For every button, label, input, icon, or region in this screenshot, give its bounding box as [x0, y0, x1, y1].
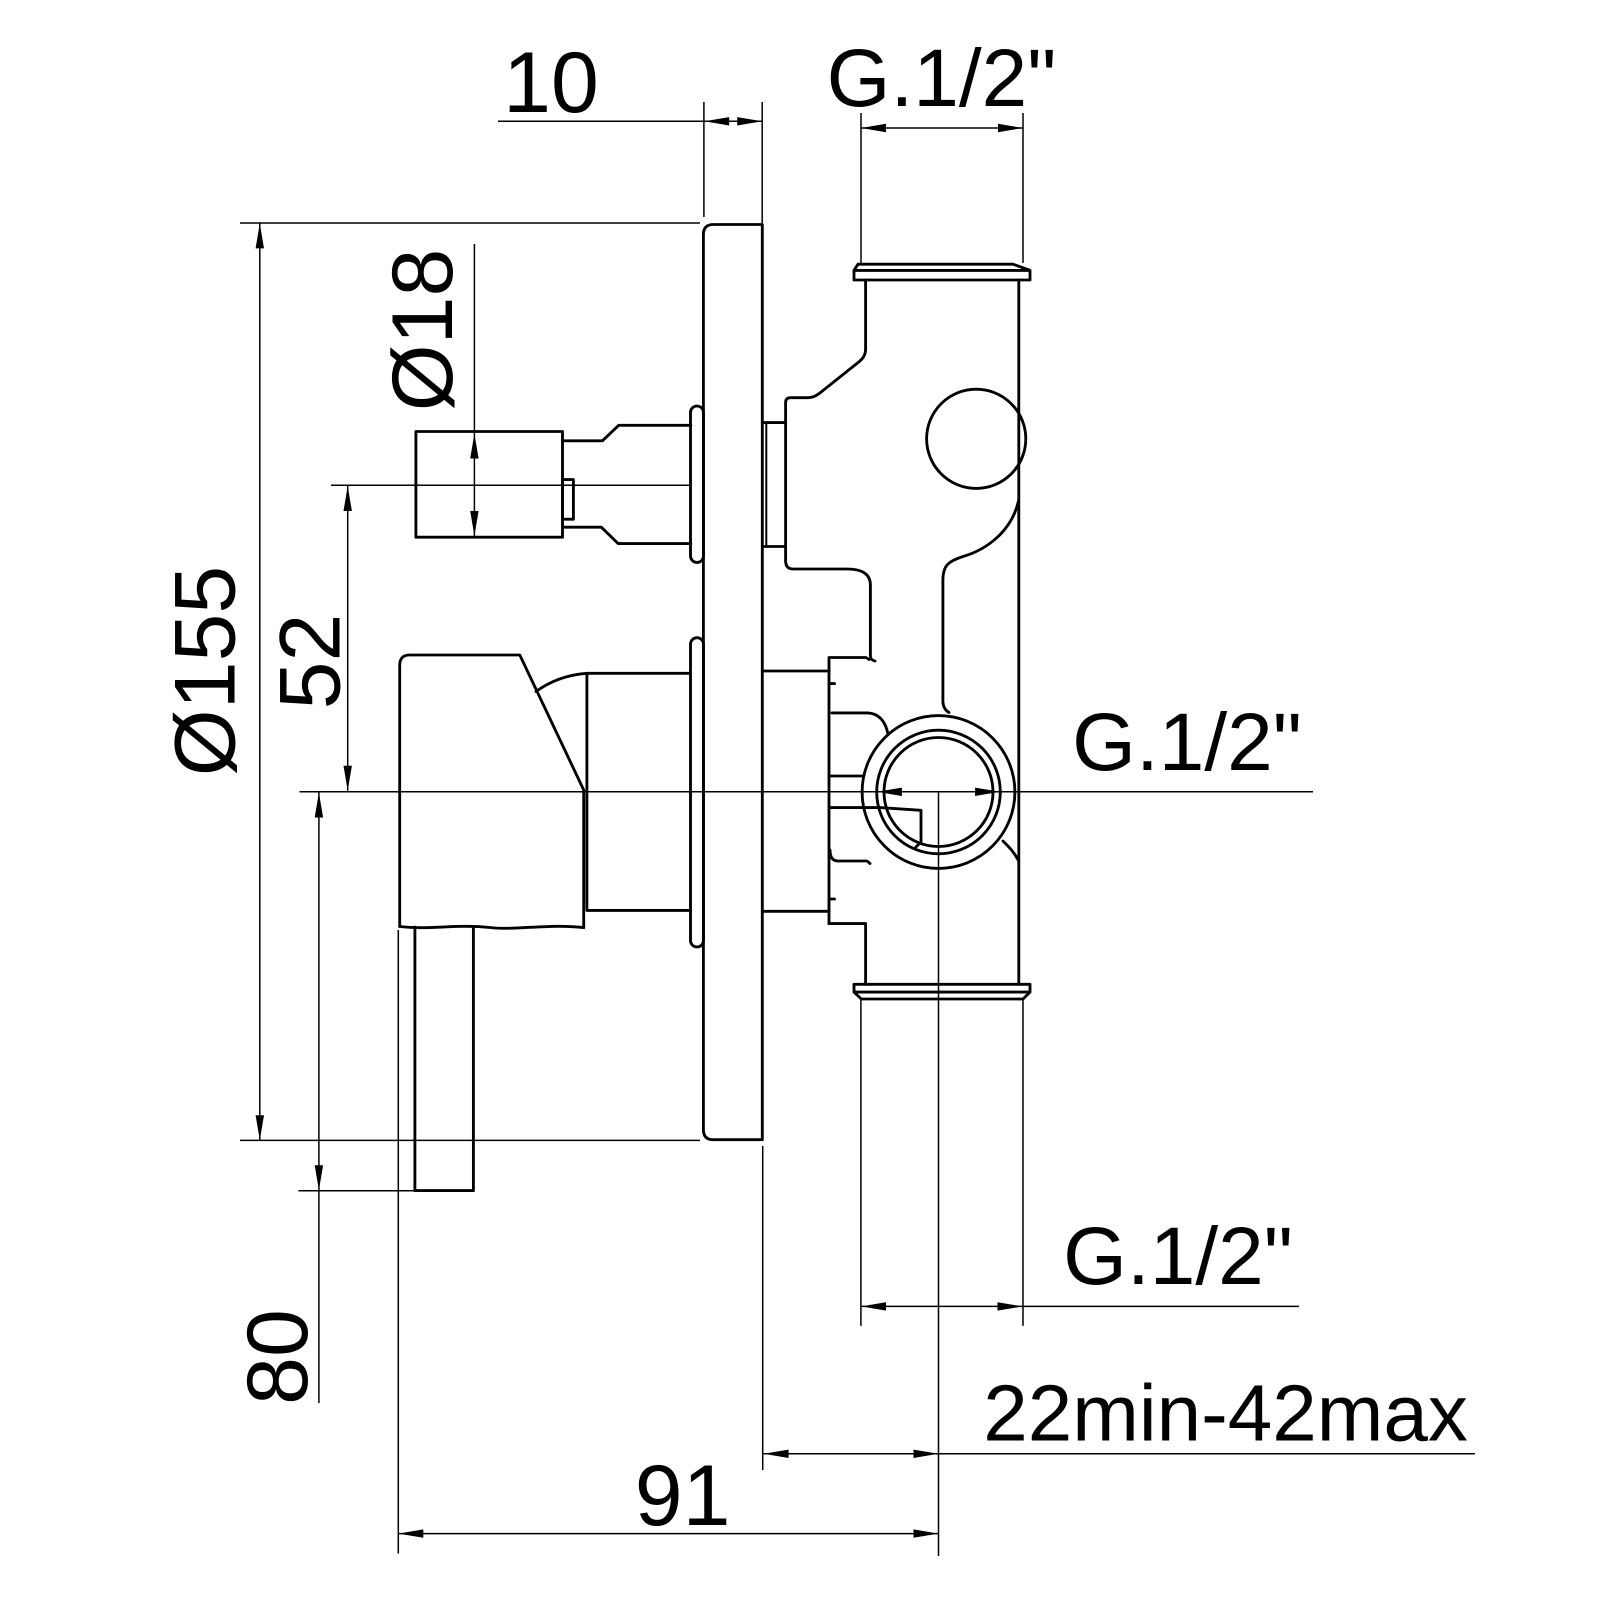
arrow port left [877, 788, 902, 796]
port neck upper edge [829, 775, 863, 778]
arrow G12top right [998, 124, 1023, 132]
arrow 91 left [398, 1529, 423, 1537]
handle lever [415, 927, 474, 1191]
dimension 22min-42max line [764, 1453, 1475, 1455]
port boss top edge [832, 713, 888, 734]
arrow G12bot right [998, 1302, 1023, 1310]
extension D155 top [240, 222, 700, 224]
arrow D18 up [470, 434, 478, 459]
handle bottom wavy edge [400, 926, 584, 928]
dimension 10 line [498, 120, 762, 122]
cartridge boss top edge [762, 670, 829, 673]
port neck lower edge / cartridge notch [829, 808, 921, 848]
top outlet circle [927, 389, 1026, 488]
svg-text:G.1/2": G.1/2" [1063, 1211, 1293, 1302]
extension D155 bottom [240, 1139, 700, 1141]
dimension D18 leader [473, 244, 475, 536]
arrow D155 up [256, 223, 264, 248]
arrow 91 right [914, 1529, 939, 1537]
svg-text:22min-42max: 22min-42max [983, 1369, 1468, 1458]
knob boss inner line [765, 425, 767, 545]
bottom pipe collar [854, 984, 1030, 999]
svg-text:80: 80 [230, 1309, 326, 1405]
port ring middle circle [877, 730, 1001, 854]
arrow 2242 right [914, 1450, 939, 1458]
extension G.1/2 bottom right (pipe edge) [1022, 999, 1024, 1326]
port vertical centerline [938, 792, 940, 1556]
port horizontal centerline [300, 791, 1314, 793]
wall plate [703, 225, 762, 1140]
body neck S-curve lower right [1003, 841, 1019, 861]
gasket strip lower [691, 638, 704, 947]
arrow port right [975, 788, 1000, 796]
knob boss top edge [762, 421, 785, 424]
knob boss bottom edge [762, 545, 785, 548]
extension G.1/2 bottom left (pipe edge) [860, 999, 862, 1326]
cartridge boss bottom edge [762, 910, 829, 913]
knob centerline [331, 484, 691, 486]
arrow 52 up [344, 486, 352, 511]
top pipe left edge [864, 280, 867, 349]
diverter knob [416, 432, 563, 538]
arrow 10 left [704, 117, 729, 125]
dimension G.1/2 top line [861, 127, 1023, 129]
arrow G12top left [861, 124, 886, 132]
knob adapter bottom [563, 527, 691, 543]
extension plate right [762, 1146, 764, 1470]
tick upper [829, 682, 835, 685]
knob adapter top [563, 425, 691, 441]
svg-text:10: 10 [503, 35, 599, 131]
extension G.1/2 top left [860, 113, 862, 263]
knob spindle [563, 480, 574, 520]
dimension 52 line [347, 486, 349, 791]
top pipe right edge / body right edge [1017, 280, 1020, 984]
svg-text:91: 91 [635, 1448, 731, 1544]
dimension 10 extension right [761, 102, 763, 223]
tick lower [829, 898, 835, 901]
dimension 91 line [398, 1533, 938, 1535]
arrow 52 down [344, 766, 352, 791]
extension G.1/2 top right [1022, 113, 1024, 263]
body shoulder [786, 349, 866, 561]
svg-text:G.1/2": G.1/2" [1072, 697, 1302, 788]
cartridge sleeve [536, 673, 691, 910]
gasket strip upper [691, 406, 704, 563]
top pipe collar [854, 264, 1030, 280]
dimension 80 line [318, 793, 320, 1404]
body lower step [829, 924, 866, 985]
port ring inner circle [884, 738, 993, 847]
body front face middle [786, 561, 875, 662]
arrow D18 down [470, 511, 478, 536]
arrow D155 down [256, 1115, 264, 1140]
port boss bottom edge [830, 850, 870, 864]
body neck S-curve upper right [943, 500, 1019, 713]
svg-text:G.1/2": G.1/2" [827, 33, 1057, 124]
arrow 10 right [737, 117, 762, 125]
extension lever bottom [298, 1190, 474, 1192]
extension 91 left [397, 930, 399, 1554]
handle body [400, 655, 584, 928]
dimension 10 extension left [703, 102, 705, 217]
dimension G.1/2 bottom line [861, 1305, 1299, 1307]
cartridge boss right edge [828, 671, 831, 924]
svg-text:52: 52 [263, 614, 359, 710]
port ring outer circle [862, 716, 1015, 869]
dimension D155 line [259, 223, 261, 1140]
arrow G12bot left [861, 1302, 886, 1310]
body step above ring [829, 658, 869, 672]
svg-text:Ø18: Ø18 [375, 249, 471, 412]
arrow 80 up [315, 793, 323, 818]
arrow 2242 left [764, 1450, 789, 1458]
svg-text:Ø155: Ø155 [158, 566, 254, 776]
arrow 80 down [315, 1165, 323, 1190]
